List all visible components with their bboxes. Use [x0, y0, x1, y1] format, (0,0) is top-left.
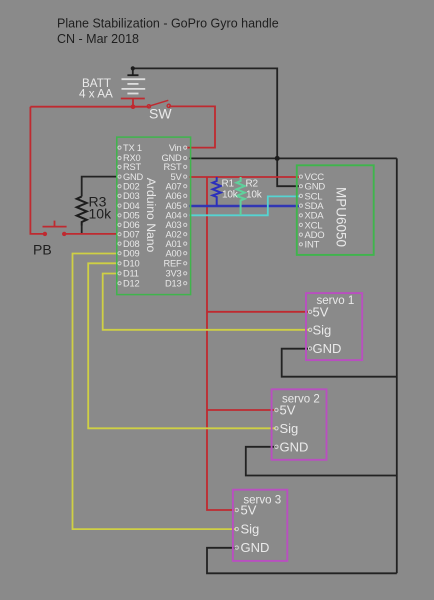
svg-text:D02: D02: [123, 181, 139, 191]
svg-text:RST: RST: [123, 162, 142, 172]
svg-text:10k: 10k: [89, 205, 113, 221]
svg-text:MPU6050: MPU6050: [333, 187, 348, 247]
svg-text:5V: 5V: [280, 403, 296, 418]
svg-text:Sig: Sig: [313, 322, 332, 337]
svg-text:D12: D12: [123, 278, 139, 288]
svg-text:GND: GND: [241, 540, 270, 555]
svg-text:SW: SW: [149, 106, 172, 122]
svg-text:TX 1: TX 1: [123, 143, 142, 153]
svg-text:CN - Mar 2018: CN - Mar 2018: [57, 32, 139, 46]
svg-text:A05: A05: [166, 201, 182, 211]
svg-text:4 x AA: 4 x AA: [79, 87, 113, 100]
svg-text:D03: D03: [123, 191, 139, 201]
svg-text:D09: D09: [123, 248, 139, 258]
svg-text:INT: INT: [305, 240, 320, 251]
svg-text:3V3: 3V3: [166, 269, 182, 279]
svg-text:A00: A00: [166, 248, 182, 258]
svg-text:GND: GND: [280, 439, 309, 454]
svg-text:Arduino Nano: Arduino Nano: [144, 178, 158, 253]
svg-text:Sig: Sig: [280, 421, 299, 436]
svg-text:GND: GND: [313, 341, 342, 356]
svg-text:GND: GND: [123, 172, 144, 182]
svg-text:D11: D11: [123, 269, 139, 279]
svg-text:A06: A06: [166, 191, 182, 201]
svg-text:Vin: Vin: [169, 143, 182, 153]
svg-text:A04: A04: [166, 211, 182, 221]
svg-text:Plane Stabilization - GoPro Gy: Plane Stabilization - GoPro Gyro handle: [57, 16, 279, 30]
svg-text:10k: 10k: [246, 190, 263, 201]
svg-text:A07: A07: [166, 181, 182, 191]
svg-text:D04: D04: [123, 201, 139, 211]
svg-text:R1: R1: [222, 179, 235, 190]
svg-text:Sig: Sig: [241, 522, 260, 537]
svg-text:R2: R2: [246, 179, 259, 190]
svg-text:D13: D13: [165, 278, 181, 288]
svg-text:10k: 10k: [222, 190, 239, 201]
svg-text:D10: D10: [123, 259, 139, 269]
svg-text:D08: D08: [123, 239, 139, 249]
svg-text:RST: RST: [164, 162, 183, 172]
svg-text:PB: PB: [33, 242, 52, 258]
svg-text:D05: D05: [123, 211, 139, 221]
svg-text:5V: 5V: [241, 503, 257, 518]
svg-text:A01: A01: [166, 239, 182, 249]
svg-text:5V: 5V: [171, 172, 183, 182]
svg-text:5V: 5V: [313, 304, 329, 319]
svg-text:REF: REF: [164, 259, 183, 269]
